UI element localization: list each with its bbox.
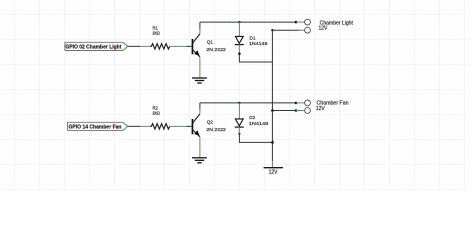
wire terminal4 pin (green)	[296, 110, 305, 112]
wire rail green tail	[271, 161, 273, 168]
wire top rail stage2	[200, 102, 296, 104]
node junction D2 pin	[238, 133, 240, 135]
svg-text:2N 2222: 2N 2222	[206, 127, 226, 132]
terminal Chamber Fan pin2	[305, 108, 311, 114]
diode D1 1N4148	[235, 22, 268, 54]
node junction rail fan	[271, 109, 274, 112]
svg-text:GPIO 02 Chamber Light: GPIO 02 Chamber Light	[65, 44, 121, 50]
wire Q1 base pin (dark)	[186, 45, 191, 47]
svg-text:1kΩ: 1kΩ	[152, 111, 160, 116]
svg-text:2N 2222: 2N 2222	[206, 47, 226, 52]
wire flag2 to R2 (green)	[140, 125, 150, 127]
wire top rail stage1	[200, 21, 296, 23]
svg-text:D2: D2	[249, 115, 255, 120]
ground GND1	[192, 78, 207, 83]
transistor Q1 2N2222	[192, 34, 227, 57]
svg-text:D1: D1	[250, 36, 256, 41]
wire flag1 pin (dark)	[128, 45, 140, 47]
terminal Chamber Light pin1	[305, 19, 311, 25]
svg-text:GPIO 14 Chamber Fan: GPIO 14 Chamber Fan	[69, 124, 122, 130]
svg-text:Q2: Q2	[207, 120, 214, 125]
wire flag1 to R1 (green)	[140, 45, 150, 47]
resistor R1	[150, 26, 169, 50]
wire D2 bottom to 12V rail	[239, 134, 272, 143]
wire Q1 emitter down (green)	[199, 57, 201, 78]
wire Q2 collector up (dark upper part)	[199, 103, 201, 110]
wire flag2 pin (dark)	[128, 125, 140, 127]
wire terminal1 pin (green)	[296, 21, 305, 23]
wire terminal4 to 12V rail	[272, 110, 296, 112]
resistor R2	[150, 106, 169, 130]
node junction terminal3	[295, 102, 298, 105]
flag GPIO 02 Chamber Light	[65, 42, 128, 50]
power 12V bar	[264, 168, 283, 176]
svg-text:12V: 12V	[316, 106, 326, 112]
wire D1 bottom to 12V rail	[239, 54, 272, 62]
node junction terminal1	[295, 21, 298, 24]
node junction terminal4	[295, 109, 298, 112]
canvas background	[0, 0, 474, 190]
svg-text:12V: 12V	[269, 170, 279, 176]
svg-text:1N4148: 1N4148	[249, 121, 269, 126]
svg-text:1N4148: 1N4148	[249, 41, 268, 46]
wire Q2 collector up (green lower part)	[199, 109, 201, 114]
diode D2 1N4148	[235, 103, 269, 134]
terminal Chamber Light pin2	[305, 27, 311, 33]
wire Q2 emitter down (green)	[199, 137, 201, 158]
node junction D1 top	[238, 21, 240, 23]
wire Q2 base pin (dark)	[186, 125, 191, 127]
svg-text:12V: 12V	[319, 25, 329, 31]
ground GND2	[192, 158, 207, 163]
node junction corner	[271, 29, 273, 31]
wire Q1 collector up (dark upper part)	[199, 22, 201, 29]
label Chamber Light 12V	[319, 20, 354, 31]
svg-text:1kΩ: 1kΩ	[152, 31, 160, 36]
flag GPIO 14 Chamber Fan	[68, 122, 128, 130]
node junction 12V rail bottom	[271, 141, 274, 144]
svg-text:Q1: Q1	[207, 40, 214, 45]
wire terminal3 pin (green)	[296, 102, 305, 104]
transistor Q2 2N2222	[192, 114, 227, 137]
wire R1 to Q1 base (green)	[170, 45, 187, 47]
wire Q1 collector up (green lower part)	[199, 29, 201, 34]
label Chamber Fan 12V	[316, 101, 349, 112]
terminal Chamber Fan pin1	[305, 100, 311, 106]
wire terminal2 to 12V rail	[272, 29, 299, 31]
wire R2 to Q2 base (green)	[170, 125, 187, 127]
node junction D2 top	[238, 102, 240, 104]
node junction D1 pin	[238, 52, 241, 55]
wire 12V vertical rail	[271, 30, 273, 161]
wire terminal2 pin (green)	[299, 29, 305, 31]
